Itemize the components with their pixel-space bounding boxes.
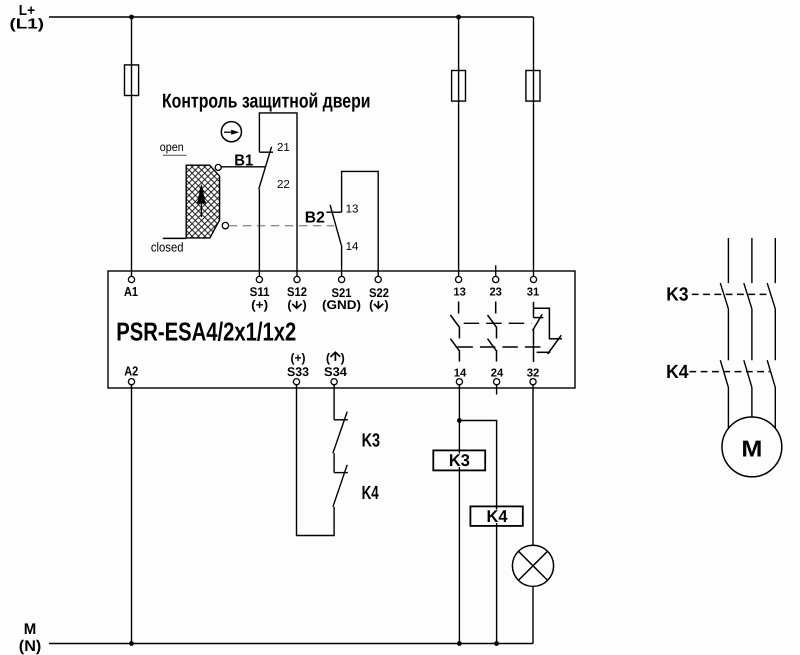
svg-text:22: 22	[277, 179, 290, 191]
svg-text:13: 13	[346, 203, 359, 215]
svg-text:M: M	[741, 435, 762, 461]
svg-text:31: 31	[527, 287, 540, 299]
svg-text:32: 32	[527, 368, 540, 380]
svg-text:(+): (+)	[291, 351, 306, 365]
svg-text:K3: K3	[362, 430, 380, 451]
svg-text:Контроль защитной двери: Контроль защитной двери	[162, 90, 371, 112]
svg-text:(L1): (L1)	[10, 17, 45, 33]
svg-text:PSR-ESA4/2x1/1x2: PSR-ESA4/2x1/1x2	[116, 317, 296, 347]
svg-text:A1: A1	[124, 284, 138, 299]
svg-text:): )	[384, 298, 388, 312]
svg-text:24: 24	[491, 368, 504, 380]
svg-text:(GND): (GND)	[322, 298, 361, 312]
svg-text:21: 21	[277, 142, 290, 154]
svg-text:13: 13	[453, 287, 466, 299]
svg-text:): )	[303, 298, 307, 312]
svg-text:(N): (N)	[19, 638, 41, 655]
svg-text:): )	[341, 351, 345, 365]
svg-text:14: 14	[346, 241, 359, 253]
svg-text:closed: closed	[151, 239, 184, 254]
svg-text:M: M	[24, 621, 37, 638]
svg-text:B1: B1	[234, 153, 253, 170]
svg-text:K3: K3	[449, 451, 470, 470]
svg-text:A2: A2	[124, 364, 138, 379]
svg-text:K4: K4	[487, 507, 509, 526]
svg-text:14: 14	[454, 368, 467, 380]
svg-text:K4: K4	[666, 362, 689, 383]
svg-text:B2: B2	[305, 210, 325, 227]
svg-text:K4: K4	[362, 483, 380, 504]
svg-text:open: open	[160, 140, 184, 154]
svg-text:(+): (+)	[251, 298, 268, 312]
svg-text:23: 23	[489, 287, 502, 299]
svg-text:K3: K3	[666, 285, 688, 306]
svg-text:S33: S33	[287, 365, 309, 379]
svg-text:S34: S34	[324, 365, 347, 379]
